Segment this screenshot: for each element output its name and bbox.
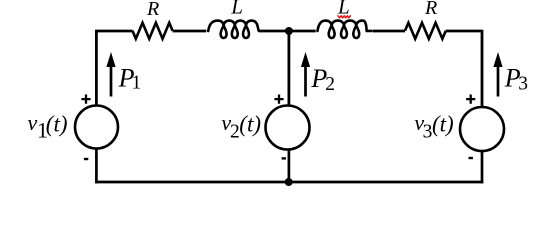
- source label v3(t): [414, 110, 453, 143]
- wire top-left horizontal segment: [96, 30, 132, 33]
- voltage source V1 circle: [75, 106, 118, 149]
- minus polarity mark of V1: [84, 158, 88, 160]
- wire bottom vertical V2 to bottom node: [288, 150, 291, 183]
- svg-text:1: 1: [132, 72, 142, 93]
- resistor R2: [405, 23, 446, 39]
- label P1: [118, 63, 142, 93]
- wire middle vertical from node A down to V2: [287, 31, 290, 106]
- arrow P1: [106, 52, 115, 97]
- svg-text:(t): (t): [46, 112, 68, 137]
- svg-text:v: v: [28, 110, 38, 135]
- value label R of right resistor: [424, 0, 437, 19]
- svg-text:L: L: [230, 0, 243, 19]
- minus polarity mark of V2: [282, 157, 286, 159]
- label P2: [310, 64, 335, 95]
- wire from L1 to node A: [259, 30, 316, 33]
- value label L of left inductor: [230, 0, 243, 19]
- svg-text:R: R: [424, 0, 437, 19]
- inductor L2: [318, 21, 372, 38]
- wire bottom rail: [95, 181, 483, 184]
- svg-text:2: 2: [230, 121, 240, 142]
- voltage source V2 circle: [266, 106, 310, 150]
- wire between R1 and L1: [173, 30, 207, 33]
- voltage source V3 circle: [460, 107, 504, 151]
- label P3: [504, 63, 528, 94]
- wire bottom vertical V3 to bottom rail: [481, 151, 484, 183]
- plus polarity mark of V2: [274, 95, 283, 104]
- resistor R1: [133, 23, 173, 39]
- node A junction dot (top middle): [285, 27, 293, 35]
- plus polarity mark of V1: [81, 95, 90, 104]
- source label v1(t): [28, 110, 68, 143]
- source label v2(t): [221, 110, 261, 143]
- wire right vertical from top corner down to V3: [481, 30, 484, 108]
- arrow P3: [493, 52, 502, 97]
- svg-text:(t): (t): [239, 112, 261, 137]
- wire between L2 and R2: [372, 30, 405, 33]
- value label L of right inductor: [337, 0, 350, 19]
- svg-text:2: 2: [325, 74, 335, 95]
- svg-text:(t): (t): [432, 112, 454, 137]
- inductor L1: [208, 21, 259, 38]
- wire R2 to top-right corner: [446, 30, 482, 33]
- value label R of left resistor: [146, 0, 159, 20]
- wire bottom vertical V1 to bottom rail: [95, 149, 98, 184]
- bottom junction dot (node B): [285, 178, 293, 186]
- red wavy spellcheck underline under right L label: [338, 16, 350, 18]
- arrow P2: [301, 52, 310, 97]
- plus polarity mark of V3: [466, 95, 475, 104]
- minus polarity mark of V3: [469, 157, 473, 159]
- wire left vertical from top corner down to V1: [95, 30, 98, 106]
- svg-text:3: 3: [423, 121, 433, 142]
- svg-text:R: R: [146, 0, 159, 20]
- svg-text:3: 3: [518, 74, 528, 95]
